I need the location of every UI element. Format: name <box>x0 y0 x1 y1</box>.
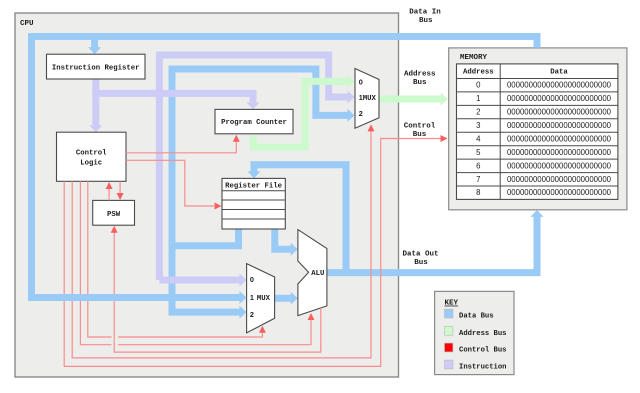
control line to MUX2 select <box>88 181 263 337</box>
wire instruction bus: IR -> control logic, branch to PC <box>92 79 253 126</box>
MUX2 (ALU operand mux) <box>247 264 275 333</box>
control logic box <box>57 132 127 181</box>
svg-text:ALU: ALU <box>311 270 324 278</box>
wire address bus: MUX1 output -> memory <box>380 96 442 103</box>
arrow into program counter top <box>247 102 260 109</box>
control line control logic -> PSW <box>119 181 121 193</box>
PSW box <box>93 200 135 225</box>
wire data bus write-back branch into register file <box>254 165 346 273</box>
control line PSW -> control logic <box>108 189 110 200</box>
wire data bus branch into instruction register <box>91 40 98 48</box>
svg-text:KEY: KEY <box>445 300 459 308</box>
svg-text:Data Out: Data Out <box>402 251 438 259</box>
svg-text:Data In: Data In <box>409 9 441 17</box>
ALU <box>298 230 327 316</box>
svg-text:2: 2 <box>250 310 254 319</box>
svg-text:Bus: Bus <box>414 259 428 267</box>
control line ALU flags -> PSW <box>114 233 321 353</box>
svg-text:Address: Address <box>463 69 494 77</box>
control bus: memory R/W line <box>64 139 440 367</box>
label data in bus <box>409 9 441 26</box>
MUX1 (address mux) <box>355 69 379 129</box>
wire data bus main loop (memory top -> top -> left -> bottom -> MUX2 in1) <box>32 37 538 298</box>
wire register file port B trunk <box>172 69 349 312</box>
svg-text:Address: Address <box>404 71 436 79</box>
svg-text:Control: Control <box>404 123 436 131</box>
svg-text:4: 4 <box>476 134 481 143</box>
svg-text:8: 8 <box>476 188 480 197</box>
key legend box <box>435 291 514 374</box>
memory box <box>449 48 627 210</box>
svg-text:000000000000000000000000: 000000000000000000000000 <box>507 94 612 103</box>
control line control logic -> register file <box>126 160 214 206</box>
wire address bus: PC -> MUX1 input 0 <box>253 81 348 147</box>
register file box <box>222 178 285 229</box>
CPU enclosure box <box>15 13 399 377</box>
svg-text:Bus: Bus <box>419 17 433 25</box>
svg-text:0: 0 <box>359 78 363 87</box>
key swatch data bus <box>445 309 453 318</box>
label data out bus <box>402 251 438 268</box>
key swatch instruction <box>445 360 453 369</box>
svg-text:MUX: MUX <box>257 295 271 303</box>
svg-text:2: 2 <box>476 108 480 117</box>
program counter box <box>215 109 293 133</box>
svg-text:Control: Control <box>76 149 107 157</box>
svg-text:000000000000000000000000: 000000000000000000000000 <box>507 121 612 130</box>
svg-text:6: 6 <box>476 161 480 170</box>
svg-text:Program Counter: Program Counter <box>221 119 287 127</box>
arrow into control logic top <box>89 125 102 132</box>
control line control logic -> PC <box>126 142 236 153</box>
svg-text:000000000000000000000000: 000000000000000000000000 <box>507 81 612 90</box>
svg-text:000000000000000000000000: 000000000000000000000000 <box>507 148 612 157</box>
wire instruction bus net B: to MUX1 in1 and MUX2 in0 <box>159 55 348 280</box>
svg-text:Bus: Bus <box>413 79 427 87</box>
memory table <box>457 64 618 200</box>
arrow into MUX1 input 1 <box>348 91 355 104</box>
svg-text:MUX: MUX <box>363 95 377 103</box>
svg-text:000000000000000000000000: 000000000000000000000000 <box>507 161 612 170</box>
label address bus <box>404 71 436 88</box>
wire MUX2 output -> ALU input <box>275 295 292 302</box>
svg-text:2: 2 <box>359 109 363 118</box>
label control bus <box>404 123 436 140</box>
svg-text:Logic: Logic <box>80 159 102 167</box>
svg-text:Address Bus: Address Bus <box>459 330 506 338</box>
key swatch control bus <box>445 343 453 352</box>
svg-text:MEMORY: MEMORY <box>460 54 488 62</box>
arrow into MUX2 input 1 <box>240 291 247 304</box>
svg-text:1: 1 <box>476 94 480 103</box>
svg-text:Bus: Bus <box>413 131 427 139</box>
svg-text:Data Bus: Data Bus <box>459 312 494 320</box>
svg-text:Data: Data <box>550 69 568 77</box>
svg-text:5: 5 <box>476 148 481 157</box>
svg-text:PSW: PSW <box>107 211 121 219</box>
svg-text:CPU: CPU <box>20 20 34 28</box>
svg-text:Control Bus: Control Bus <box>459 346 506 354</box>
svg-text:3: 3 <box>476 121 480 130</box>
svg-text:000000000000000000000000: 000000000000000000000000 <box>507 175 612 184</box>
wire register file port A -> ALU input <box>275 229 292 249</box>
wire data out bus: ALU -> memory bottom <box>327 216 537 272</box>
arrow into MUX2 input 0 <box>240 274 247 287</box>
control line to MUX1 select <box>72 131 371 358</box>
data bus bottom segment redrawn over control lines <box>28 294 241 301</box>
svg-text:0: 0 <box>250 275 254 284</box>
key swatch address bus <box>445 326 453 335</box>
svg-text:000000000000000000000000: 000000000000000000000000 <box>507 108 612 117</box>
svg-text:Instruction: Instruction <box>459 363 506 371</box>
arrow into MUX1 input 2 <box>348 109 355 122</box>
svg-text:000000000000000000000000: 000000000000000000000000 <box>507 134 612 143</box>
svg-text:7: 7 <box>476 175 480 184</box>
svg-text:000000000000000000000000: 000000000000000000000000 <box>507 188 612 197</box>
instruction register box <box>47 54 146 79</box>
control line to ALU <box>80 181 311 344</box>
svg-text:0: 0 <box>476 81 481 90</box>
arrow into MUX2 input 2 <box>240 306 247 319</box>
svg-text:Instruction Register: Instruction Register <box>52 64 140 72</box>
svg-text:1: 1 <box>250 293 254 302</box>
svg-text:Register File: Register File <box>225 183 283 191</box>
